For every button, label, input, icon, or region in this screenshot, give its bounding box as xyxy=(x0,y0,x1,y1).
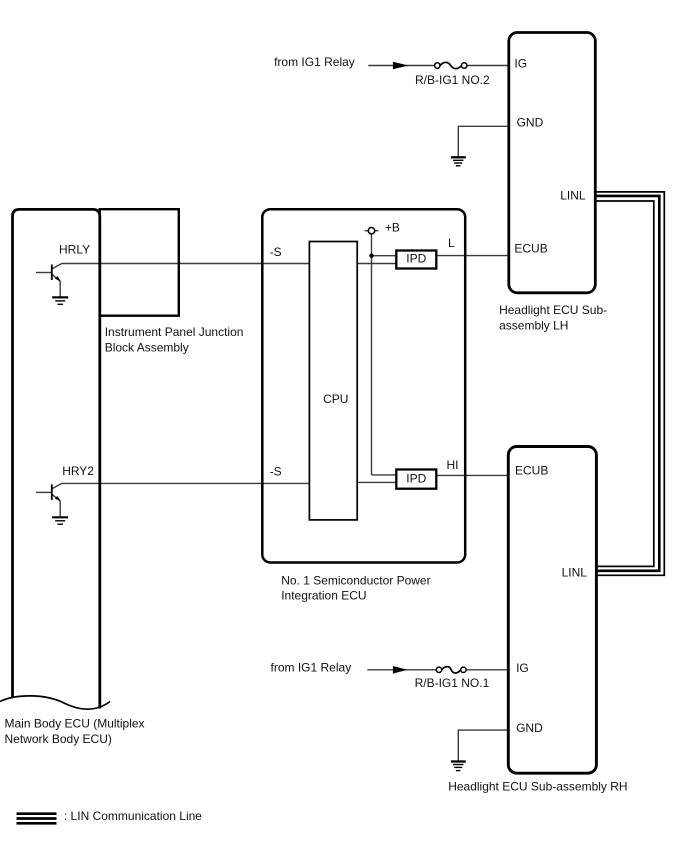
svg-text:No. 1 Semiconductor Power: No. 1 Semiconductor Power xyxy=(281,573,430,587)
svg-text:Network Body ECU): Network Body ECU) xyxy=(5,732,112,746)
svg-text:Integration ECU: Integration ECU xyxy=(281,589,366,603)
svg-text:R/B-IG1 NO.1: R/B-IG1 NO.1 xyxy=(415,676,490,690)
svg-text:ECUB: ECUB xyxy=(514,242,547,256)
svg-text:ECUB: ECUB xyxy=(515,463,548,477)
svg-text:-S: -S xyxy=(270,465,282,479)
svg-text:CPU: CPU xyxy=(323,392,348,406)
svg-text:HRY2: HRY2 xyxy=(62,464,94,478)
svg-text:IPD: IPD xyxy=(406,252,426,266)
svg-text:IG: IG xyxy=(514,57,527,71)
svg-text:Main Body ECU (Multiplex: Main Body ECU (Multiplex xyxy=(5,717,145,731)
svg-text:LINL: LINL xyxy=(560,188,586,202)
svg-text:IG: IG xyxy=(516,661,529,675)
svg-text:Headlight ECU Sub-: Headlight ECU Sub- xyxy=(499,303,607,317)
svg-text:GND: GND xyxy=(517,116,544,130)
svg-text:Instrument Panel Junction: Instrument Panel Junction xyxy=(105,325,244,339)
svg-text:+B: +B xyxy=(385,221,400,235)
svg-text:from IG1 Relay: from IG1 Relay xyxy=(271,660,352,674)
svg-text:Block Assembly: Block Assembly xyxy=(105,340,189,354)
svg-text:R/B-IG1 NO.2: R/B-IG1 NO.2 xyxy=(415,73,490,87)
svg-text:IPD: IPD xyxy=(406,472,426,486)
svg-text:-S: -S xyxy=(270,245,282,259)
svg-text:L: L xyxy=(448,236,455,250)
svg-text:: LIN Communication Line: : LIN Communication Line xyxy=(64,809,202,823)
svg-text:GND: GND xyxy=(516,721,543,735)
svg-text:HRLY: HRLY xyxy=(59,242,90,256)
svg-text:from IG1 Relay: from IG1 Relay xyxy=(274,55,355,69)
svg-text:assembly LH: assembly LH xyxy=(499,318,568,332)
svg-text:Headlight ECU Sub-assembly RH: Headlight ECU Sub-assembly RH xyxy=(448,780,627,794)
svg-text:HI: HI xyxy=(447,458,459,472)
svg-text:LINL: LINL xyxy=(562,565,588,579)
